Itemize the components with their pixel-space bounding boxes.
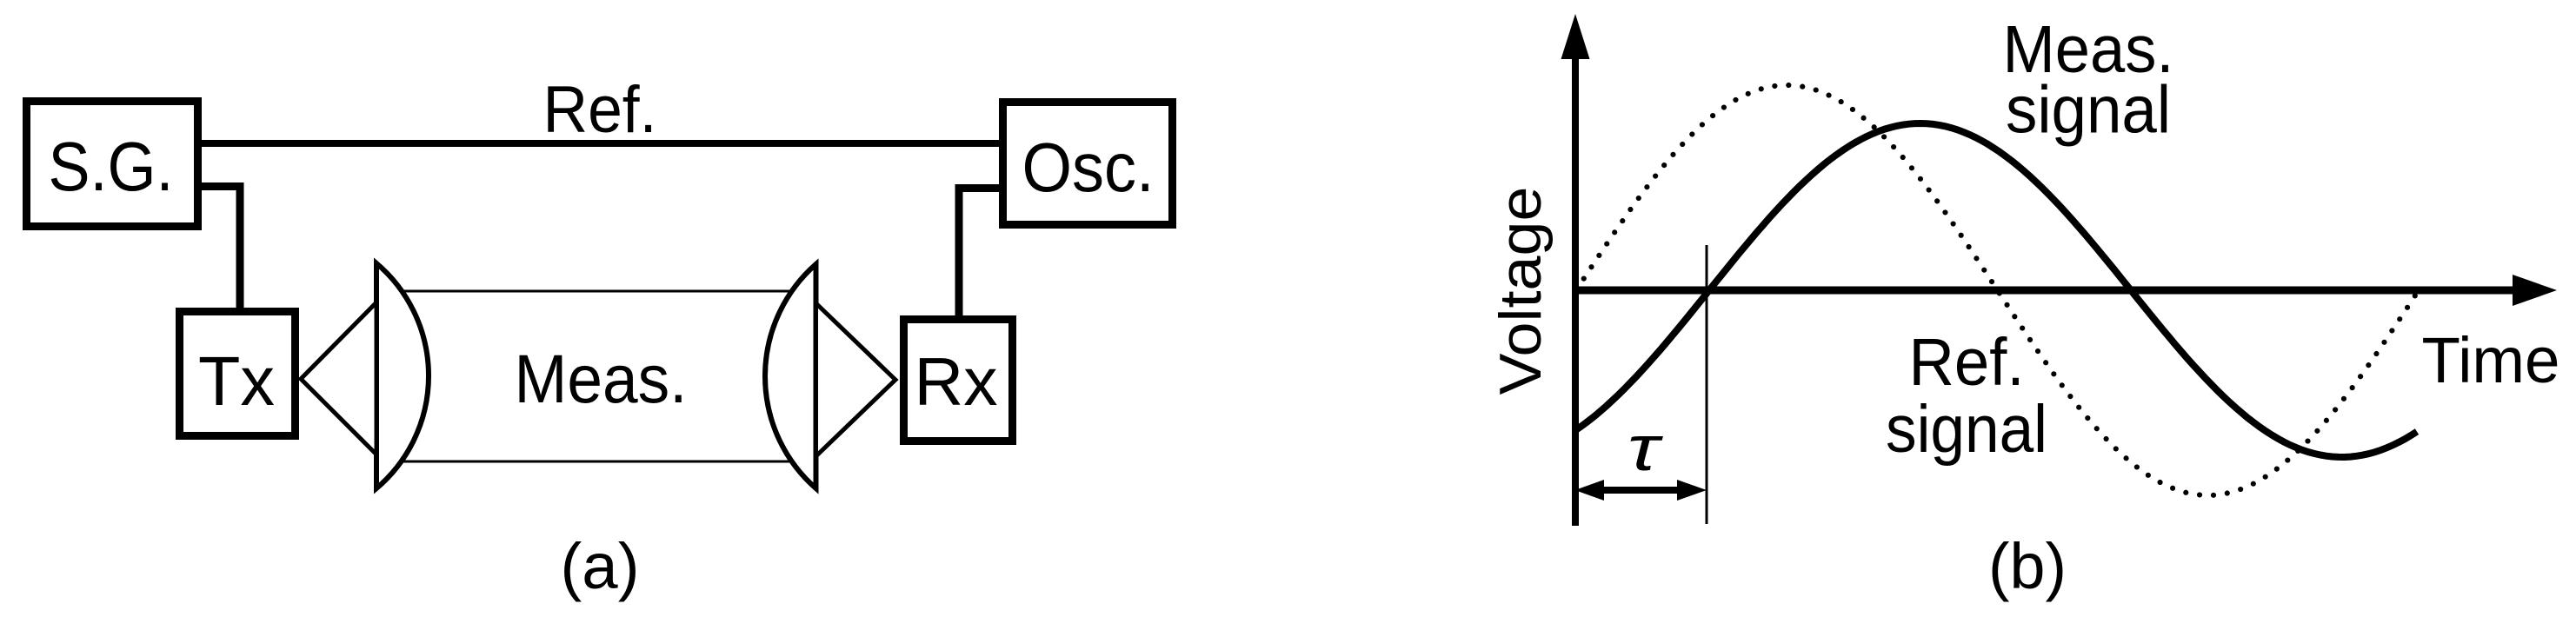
beam path top line <box>383 290 800 293</box>
svg-text:Tx: Tx <box>198 342 275 420</box>
tau marker line <box>1706 245 1708 524</box>
svg-text:Ref.: Ref. <box>1909 325 2025 400</box>
svg-text:Voltage: Voltage <box>1488 187 1554 395</box>
svg-text:(a): (a) <box>561 530 640 602</box>
svg-text:signal: signal <box>1886 392 2047 467</box>
tau arrow left head <box>1575 480 1605 501</box>
wire S.G. to Tx <box>202 187 240 308</box>
lens left <box>376 263 429 488</box>
tau arrow right head <box>1677 480 1707 501</box>
svg-text:S.G.: S.G. <box>49 128 174 205</box>
tau delay arrow shaft <box>1586 487 1695 494</box>
curve Meas. signal (solid) <box>1576 123 2417 457</box>
svg-text:Rx: Rx <box>915 343 998 420</box>
axis Voltage (y-axis) <box>1572 52 1579 526</box>
svg-text:τ: τ <box>1627 414 1664 484</box>
x-axis arrowhead <box>2513 275 2557 306</box>
y-axis arrowhead <box>1561 14 1590 59</box>
lens right <box>765 264 815 488</box>
svg-text:Osc.: Osc. <box>1022 129 1155 206</box>
horn antenna at Rx <box>816 303 896 456</box>
svg-text:signal: signal <box>2006 73 2171 148</box>
svg-text:Ref.: Ref. <box>543 73 657 147</box>
svg-text:Meas.: Meas. <box>515 340 688 417</box>
horn antenna at Tx <box>301 302 376 454</box>
curve Ref. signal (dotted) <box>1576 85 2419 495</box>
box Tx <box>180 312 296 436</box>
beam path bottom line <box>383 461 800 463</box>
box Osc. <box>1003 103 1173 225</box>
wire Osc. to Rx <box>959 189 999 316</box>
svg-text:Time: Time <box>2422 324 2560 396</box>
box Rx <box>904 320 1013 441</box>
box S.G. <box>27 102 198 227</box>
wire Ref. from S.G. to Osc. <box>202 140 999 147</box>
axis Time (x-axis) <box>1575 287 2514 295</box>
svg-text:(b): (b) <box>1988 530 2067 602</box>
